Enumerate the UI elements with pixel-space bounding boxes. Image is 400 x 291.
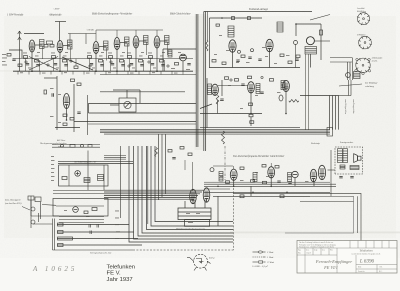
wire long feed 4: [100, 91, 185, 93]
comp row mid: [61, 144, 93, 147]
wire V19 drop: [270, 178, 272, 186]
socket S3 pins: [355, 58, 371, 74]
tube V8: [229, 40, 236, 52]
wire grid leak V3: [103, 60, 105, 71]
transformer labels: [186, 213, 200, 223]
antenna: [18, 31, 22, 71]
tube V18: [230, 169, 237, 180]
box deflection unit B: [53, 199, 108, 217]
wire long feed 3: [74, 120, 196, 122]
wire cluster right: [73, 84, 75, 132]
wire right drop b: [308, 54, 310, 130]
capacitor C3b: [100, 65, 103, 66]
coil L2: [68, 40, 73, 49]
value labels left column: [2, 54, 7, 65]
svg-text:Fernseh-Empfänger: Fernseh-Empfänger: [315, 259, 352, 264]
wire box link 1: [53, 190, 104, 192]
wire cable b1: [158, 134, 160, 200]
resistor extra d: [222, 62, 226, 65]
texture circles band: [25, 60, 169, 67]
wire bus stub 10: [116, 71, 118, 74]
wire top feed Ton: [210, 17, 263, 19]
tube V3: [93, 42, 99, 54]
wire speaker feed: [330, 150, 332, 196]
value labels Ton mid: [220, 85, 281, 109]
row right labels: [115, 211, 120, 239]
wire bus stub 3: [39, 71, 41, 74]
wire anode V6: [160, 40, 168, 42]
wire V18 drop: [233, 180, 235, 186]
junction V4: [116, 70, 118, 72]
resistor in box B: [92, 208, 97, 211]
wire cathode V6: [156, 48, 158, 71]
wire bus stub 15: [171, 71, 173, 74]
small tube V14b: [279, 95, 283, 101]
svg-text:1 k 5000 = 0,5 µF: 1 k 5000 = 0,5 µF: [252, 266, 269, 268]
wire in box A: [68, 165, 70, 186]
wire anode V3: [99, 46, 107, 48]
junction circle Ton b: [261, 76, 263, 78]
wire cable b3: [165, 134, 167, 194]
wire tube top 2: [116, 30, 118, 38]
wire bus 1: [100, 129, 330, 131]
wire Ton bus: [209, 67, 300, 69]
wire Ton mid bus: [200, 113, 262, 115]
resistor R5b: [139, 60, 143, 63]
resistor TonZF top b: [262, 165, 266, 168]
junction bus a: [250, 113, 252, 115]
junction circle TonZF: [210, 168, 214, 172]
meter box: [119, 98, 136, 112]
wire band upper 1: [104, 155, 126, 157]
wire bundle top ext: [339, 95, 352, 97]
border smudge: [195, 14, 207, 150]
tube V21: [310, 169, 316, 181]
wire double feed a: [52, 219, 54, 251]
legend row 2: [253, 256, 274, 259]
resistor mid a: [44, 45, 48, 48]
resistor Ton a: [225, 77, 229, 80]
wire bundle top: [300, 95, 339, 97]
capacitor C8b: [248, 57, 251, 58]
dashed box right: [233, 188, 235, 250]
junction bus b: [285, 113, 287, 115]
wire transformer b: [194, 201, 196, 208]
wire long feed 1: [89, 102, 197, 104]
tube socket S3: [356, 58, 371, 73]
svg-text:1 Bl.: 1 Bl.: [379, 267, 383, 269]
wire note arrow: [339, 84, 362, 86]
value labels stage 1: [23, 52, 40, 68]
wire cathode V9: [269, 52, 271, 68]
resistor Ton e: [249, 114, 253, 117]
wire band 4: [104, 195, 198, 197]
resistor Ton c: [248, 76, 252, 79]
wire socket drop b: [349, 62, 351, 80]
wire feed join: [88, 103, 90, 113]
wire bus 3: [100, 132, 330, 134]
capacitor C3a: [90, 64, 93, 65]
wire bus stub 6: [72, 71, 74, 74]
junction V3: [95, 70, 97, 72]
speaker comp a: [340, 165, 345, 169]
wire meter top: [126, 90, 128, 98]
wire cross 3: [62, 57, 93, 70]
resistor input: [7, 54, 11, 57]
capacitor TonZF b: [288, 182, 291, 183]
wire diagonal topright: [310, 15, 330, 21]
coil Ton 2: [253, 173, 257, 182]
resistor enclosure b: [280, 195, 284, 198]
resistor mid band c: [188, 153, 192, 156]
striped comp box A: [84, 178, 90, 183]
resistor TonZF b: [251, 180, 255, 183]
tube V2: [57, 41, 63, 53]
coil L4: [125, 37, 130, 46]
wire bus stub 13: [149, 71, 151, 74]
svg-text:Jahr 1937: Jahr 1937: [107, 277, 133, 283]
coil squiggle border: [222, 131, 225, 144]
resistor cluster a: [71, 79, 75, 82]
paper tone band: [4, 16, 396, 238]
resistor R1b: [35, 60, 39, 63]
wire input: [9, 50, 22, 58]
coil V14 input: [281, 81, 285, 90]
resistor TonZF top c: [275, 166, 279, 169]
wire tube top 1: [95, 30, 97, 42]
scan streak 2: [0, 70, 200, 71]
junction circle Ton a: [230, 79, 232, 81]
series capacitors row: [89, 224, 98, 234]
wire note arrow left: [22, 207, 30, 211]
section border line a: [195, 14, 197, 147]
wire cathode V2: [59, 53, 61, 72]
speaker comp b: [350, 166, 359, 170]
wire coupling V5: [146, 43, 148, 56]
wire grid leak V4: [124, 60, 126, 71]
wire V15 top: [192, 162, 194, 191]
wire socket feed a: [330, 57, 352, 59]
capacitor C8: [236, 60, 239, 61]
wire Ton f drop: [250, 117, 252, 126]
resistor cluster d: [70, 118, 74, 121]
coil L9: [277, 22, 283, 32]
wire boxB row 1: [59, 216, 104, 218]
small tube right: [346, 73, 351, 78]
resistor mid b: [50, 45, 54, 48]
wire left drop Ton: [209, 18, 211, 68]
resistor TonZF a: [226, 181, 230, 184]
wire cable loop 3: [138, 146, 233, 236]
resistor cluster e: [63, 123, 67, 126]
wire top rail 2: [96, 29, 163, 31]
circle in box B: [73, 207, 79, 213]
capacitor mid band: [172, 158, 175, 159]
junction V1: [31, 70, 33, 72]
wire screen V6: [150, 59, 152, 72]
wire grid leak V6: [164, 60, 166, 71]
wire enclosure stub2: [250, 186, 252, 196]
wire meter left: [110, 104, 119, 106]
wire socket to bundle a: [348, 80, 350, 96]
striped comp box right: [98, 175, 104, 181]
title block top row: [297, 241, 397, 249]
wire cathode V3: [95, 54, 97, 72]
legend row 1: [253, 251, 274, 254]
wire tube top 3: [135, 30, 137, 36]
wire bus stub 1: [17, 71, 19, 74]
wire bottom row 3: [57, 238, 138, 240]
lower rail bus: [100, 74, 196, 76]
terminal box row 4: [58, 244, 64, 247]
wire top right: [296, 23, 321, 25]
capacitor C6b: [161, 65, 164, 66]
resistor in box B2: [84, 211, 88, 214]
value labels stage 6: [148, 52, 165, 68]
coil right cluster: [354, 72, 361, 79]
dashed box bottom: [133, 249, 234, 251]
resistor TonZF top a: [240, 167, 244, 170]
dashed speaker box: [335, 147, 363, 174]
wire grid leak V2: [67, 60, 69, 71]
wire bus stub 9: [105, 71, 107, 74]
wire tube top 4: [156, 30, 158, 36]
wire band 5: [104, 196, 196, 198]
value labels stage 3: [87, 52, 104, 68]
capacitor C9: [258, 59, 261, 60]
tube V15: [190, 189, 197, 203]
capacitor C4a: [111, 64, 114, 65]
wire enclosure mid: [300, 201, 354, 203]
resistor R6a: [149, 56, 153, 59]
resistor R7: [175, 63, 179, 66]
paper noise filter: [0, 0, 1, 1]
wire V20 drop: [294, 178, 296, 187]
wire stub drum: [295, 24, 297, 36]
resistor Ton b: [235, 79, 239, 82]
wire band 3: [104, 193, 200, 195]
wire cluster right2: [87, 95, 89, 135]
wire Ton lower bus: [200, 126, 300, 128]
svg-text:FE VI/1: FE VI/1: [323, 265, 338, 270]
junction TonZF b: [270, 186, 272, 188]
wire anode V1: [35, 44, 43, 46]
resistor zigzag V14: [289, 100, 299, 103]
coil wavy: [155, 148, 158, 157]
resistor extra a: [296, 55, 300, 58]
resistor cluster c: [63, 114, 67, 117]
capacitor TonZF a: [277, 181, 280, 182]
wire meter rail drop: [139, 90, 141, 103]
terminal box row 3: [58, 237, 73, 240]
capacitor C1a: [26, 64, 29, 65]
resistor extra b: [288, 61, 292, 64]
resistor enclosure a: [240, 195, 244, 198]
wire enclosure outer: [233, 193, 361, 240]
wire screen V5: [129, 59, 131, 72]
wire cable extra b: [147, 146, 149, 224]
speaker transformer b: [343, 149, 348, 163]
resistor cluster b: [77, 83, 81, 86]
wire label row 1: [52, 144, 100, 146]
wire diagonal: [200, 104, 212, 109]
wire screen V3: [89, 59, 91, 72]
wire enclosure stub: [217, 196, 219, 226]
value labels under bus: [20, 72, 178, 73]
resistor mid: [74, 66, 78, 69]
wire in box B: [56, 205, 104, 207]
wire socket drop c: [352, 58, 354, 81]
wire coupling V4: [127, 44, 129, 57]
wire band 6: [104, 198, 194, 200]
legend row 3: [253, 261, 275, 264]
wire grid leak V1: [39, 60, 41, 71]
vertical text cols: [344, 99, 355, 114]
wire band 2: [104, 191, 202, 193]
wire V14 drop: [285, 92, 287, 114]
title block top text: [299, 241, 336, 249]
box mid small: [47, 41, 53, 44]
capacitor Ton a: [241, 84, 244, 85]
wire cluster bottom: [55, 127, 80, 129]
wire V21 drop: [313, 182, 315, 186]
wire screen V1: [25, 59, 27, 72]
tube V7: [180, 54, 187, 61]
wire V12-V13 link: [218, 85, 248, 87]
value labels box B: [64, 210, 90, 217]
wire socket drop a: [347, 62, 349, 80]
wire cable loop 4: [142, 146, 233, 233]
wire section left drop: [207, 12, 209, 41]
capacitor C1b: [36, 65, 39, 66]
svg-text:A 10625: A 10625: [32, 265, 77, 273]
transformer lower box: [185, 220, 210, 227]
value labels detector: [171, 52, 190, 70]
wire tubes to speaker: [328, 169, 336, 171]
section border line c: [203, 12, 205, 152]
wire Ton bottom bus 00: [204, 181, 330, 183]
junction valve a: [238, 50, 241, 53]
value labels cluster: [50, 88, 61, 123]
resistor zigzag V12: [216, 95, 219, 104]
tube V14: [283, 80, 290, 91]
coil L7: [168, 50, 172, 57]
wire bus stub 11: [127, 71, 129, 74]
resistor top b: [248, 17, 251, 20]
capacitor speaker a: [339, 177, 342, 178]
resistor R4b: [120, 60, 124, 63]
resistor Ton d: [270, 79, 274, 82]
capacitor C10: [295, 59, 298, 60]
resistor mid band b: [180, 147, 184, 150]
svg-text:Telefunken: Telefunken: [107, 264, 136, 270]
small tube V10b: [294, 41, 298, 45]
capacitor Ton b: [260, 92, 263, 93]
resistor V13 drop: [249, 103, 253, 106]
wire box A right: [87, 151, 89, 191]
wire above box A1: [58, 160, 133, 162]
resistor R9: [280, 54, 284, 57]
resistor mid band a: [168, 150, 172, 153]
svg-text:Bl. 1: Bl. 1: [379, 271, 382, 273]
wire cable extra a: [120, 146, 122, 218]
junction cluster: [66, 119, 68, 121]
wire rail drop b: [85, 34, 87, 45]
wire right drop a: [305, 54, 307, 130]
wire band upper 2: [104, 156, 126, 158]
resistor R2a: [52, 56, 56, 59]
ground bus: [13, 70, 193, 72]
section border top: [204, 11, 312, 13]
capacitor C4b: [121, 65, 124, 66]
wire bus stub 12: [138, 71, 140, 74]
title block bottom cells: [356, 265, 397, 274]
tube V11: [63, 94, 69, 109]
scan blur filter: [0, 0, 1, 1]
junction V5: [135, 70, 137, 72]
capacitor C2b: [64, 65, 67, 66]
capacitor speaker b: [350, 177, 353, 178]
coil L5: [144, 36, 149, 45]
wire bottom row 2: [57, 231, 134, 233]
wire right drop: [320, 24, 322, 60]
wire coupling V3: [106, 48, 108, 61]
wire boxB row 2: [59, 219, 104, 221]
coil L6: [165, 36, 170, 45]
wire boxB row 3: [59, 222, 104, 224]
resistor zigzag left border: [206, 40, 208, 51]
tube V13: [248, 82, 255, 93]
plug cluster: [31, 196, 56, 228]
left edge text col: [51, 156, 55, 181]
wire bus stub 14: [160, 71, 162, 74]
dashed section border: [224, 146, 226, 180]
resistor R4a: [109, 56, 113, 59]
junction valve b: [251, 49, 254, 52]
resistor R6b: [160, 60, 164, 63]
wire long feed 3b: [88, 123, 196, 125]
capacitor C2a: [54, 64, 57, 65]
resistor cluster f: [44, 90, 47, 94]
wire enclosure v2: [357, 196, 359, 233]
wire stub top: [55, 21, 66, 23]
value labels Ton top: [219, 35, 266, 63]
wire V12 zig drop: [217, 100, 219, 114]
transformer box: [178, 208, 211, 220]
junction TonZF e: [286, 192, 288, 194]
wire band 1: [104, 189, 204, 191]
wire socket to bundle b: [350, 80, 352, 96]
rail bus: [13, 58, 193, 60]
svg-text:Ersatz für: Ersatz für: [358, 270, 365, 273]
resistor R1a: [24, 56, 28, 59]
wire top rail: [24, 33, 44, 35]
wire V19 top: [270, 163, 272, 167]
wire Ton bottom bus 1: [204, 185, 336, 187]
wire coupling V1: [42, 47, 44, 60]
wire cathode V4: [116, 50, 118, 72]
wire V10b drop: [295, 45, 297, 68]
capacitor C6a: [151, 64, 154, 65]
wire Ton left drop: [206, 78, 208, 128]
wire cable loop 6: [151, 146, 233, 226]
wire bus 2: [100, 130, 330, 132]
junction V6: [156, 70, 158, 72]
wire bottom row 4: [57, 244, 142, 246]
wire transformer a: [184, 201, 186, 208]
wire bus stub 7: [83, 71, 85, 74]
coil Ton 3: [288, 173, 292, 182]
